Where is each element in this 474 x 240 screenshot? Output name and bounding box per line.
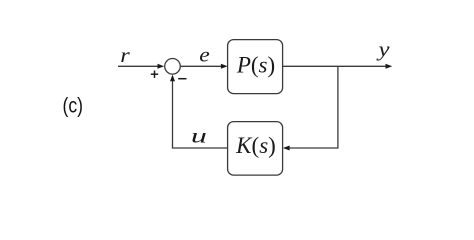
svg-text:y: y <box>376 39 390 61</box>
svg-text:r: r <box>120 45 130 67</box>
svg-text:(c): (c) <box>63 95 84 118</box>
svg-text:e: e <box>199 44 210 66</box>
svg-text:K(s): K(s) <box>235 133 276 158</box>
svg-text:P(s): P(s) <box>236 53 275 78</box>
svg-text:u: u <box>191 125 207 147</box>
